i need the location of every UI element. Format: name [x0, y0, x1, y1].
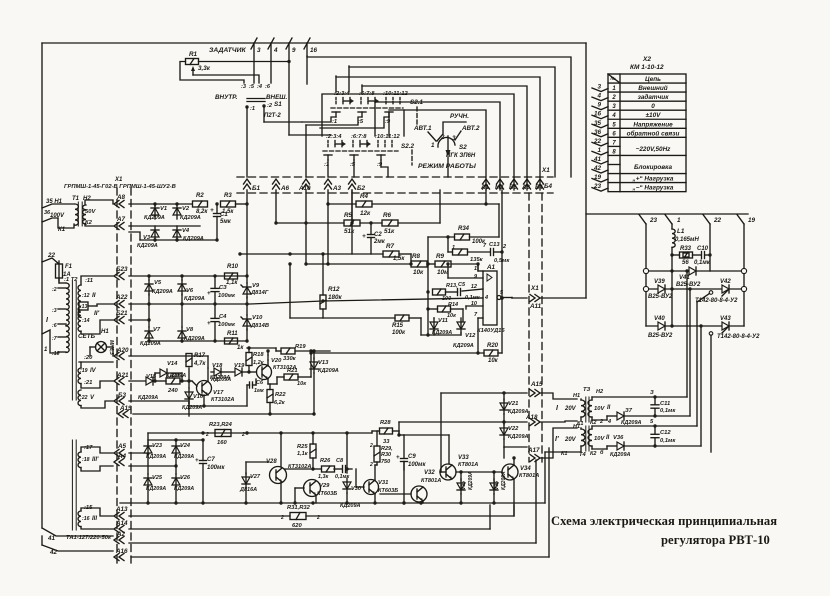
svg-text:V7: V7: [153, 327, 161, 333]
svg-text::6: :6: [52, 323, 57, 329]
svg-text:III′: III′: [92, 457, 99, 463]
svg-text:R15: R15: [392, 323, 404, 329]
svg-text:2: 2: [369, 462, 373, 468]
capacitor C6: [250, 380, 264, 394]
wire v23 top rail: [148, 438, 205, 447]
node V1 labels: [144, 206, 167, 221]
svg-text:Б5: Б5: [509, 185, 517, 191]
node X1 pin А6: [273, 179, 290, 192]
svg-text:V36: V36: [494, 481, 500, 490]
svg-text:20V: 20V: [564, 437, 577, 443]
svg-text:IV: IV: [90, 368, 97, 374]
svg-text:„−“ Нагрузка: „−“ Нагрузка: [632, 185, 674, 192]
svg-text:С9: С9: [408, 454, 416, 460]
node X1 pin Б21: [114, 310, 128, 324]
node X1 pin А18: [525, 414, 540, 426]
resistor R16: [166, 373, 181, 394]
svg-text:10V: 10V: [594, 436, 605, 442]
wire R19 wires: [247, 348, 311, 351]
svg-text:2: 2: [241, 432, 245, 438]
svg-text:750: 750: [381, 459, 390, 465]
svg-text:А19: А19: [119, 405, 132, 412]
svg-text:3: 3: [597, 84, 601, 91]
node terminal 23: [639, 215, 658, 225]
svg-text:V26: V26: [180, 475, 191, 481]
svg-text:V36: V36: [613, 435, 624, 441]
wire X2 external pin leads: [592, 84, 608, 192]
transformer T3 core: [586, 397, 589, 422]
svg-text:V33: V33: [458, 455, 469, 461]
wire C9 row: [399, 393, 446, 472]
svg-text:Н2: Н2: [596, 389, 603, 395]
svg-text:R26: R26: [320, 458, 331, 464]
diode V35: [457, 471, 474, 494]
svg-text:II: II: [607, 405, 611, 411]
svg-text::3: :3: [52, 308, 57, 314]
fuse F1: [56, 261, 73, 281]
node X1 pin А11: [529, 295, 542, 311]
svg-text:X1: X1: [114, 177, 123, 183]
wire rail 433: [148, 431, 372, 440]
svg-text:V15: V15: [146, 374, 157, 380]
node T2 I label: [46, 317, 49, 324]
svg-text:1: 1: [44, 347, 48, 353]
svg-text:А9: А9: [521, 185, 530, 191]
svg-text:V5: V5: [154, 280, 162, 286]
svg-text:КД209А: КД209А: [183, 236, 204, 242]
diode V22: [500, 424, 529, 440]
capacitor C3: [207, 276, 236, 304]
svg-text:5: 5: [650, 419, 654, 425]
wire V35 wires: [460, 472, 462, 503]
wire R29 wires: [375, 431, 377, 465]
wire right border to thyristor block: [586, 213, 748, 215]
capacitor C5: [458, 282, 481, 301]
svg-text:КД209А: КД209А: [146, 486, 166, 492]
svg-text:V19: V19: [234, 363, 245, 369]
transformer T2 primary lower: [66, 326, 69, 352]
svg-text:КД209А: КД209А: [174, 486, 194, 492]
wire A1 pin10: [466, 306, 483, 309]
wire snubber row: [643, 268, 746, 273]
svg-text:V12: V12: [465, 333, 476, 339]
resistor R12v: [320, 286, 343, 309]
svg-text:0,1мк: 0,1мк: [694, 260, 711, 266]
svg-text:33: 33: [383, 439, 390, 445]
node V43 labels: [717, 316, 760, 340]
wire C9 bottom: [402, 462, 405, 505]
node КД209А V18V19 label: [211, 377, 231, 383]
svg-text:V23: V23: [152, 443, 163, 449]
wire А18 row: [399, 420, 527, 423]
svg-text:51к: 51к: [344, 228, 355, 235]
wire frame left drop 5: [321, 95, 323, 136]
node T3 labels: [556, 387, 611, 427]
svg-text:1: 1: [474, 266, 477, 272]
node pin 4 top border: [268, 38, 278, 54]
wire А16 row: [131, 448, 549, 557]
svg-text:10к: 10к: [413, 269, 424, 276]
svg-text:КД209А: КД209А: [184, 296, 205, 302]
svg-text::2: :2: [52, 287, 57, 293]
node ВНУТР label: [215, 94, 238, 101]
svg-text:1: 1: [612, 86, 616, 92]
wire T1 pri bottom: [58, 218, 74, 228]
node V41 labels: [676, 275, 701, 288]
node title line1: [551, 514, 777, 528]
node X1 top dashed bus upper: [237, 176, 553, 178]
inductor L1: [672, 228, 699, 247]
node X1 pin Б3: [114, 392, 126, 405]
wire V16 wires: [187, 368, 190, 416]
svg-text:7: 7: [612, 140, 616, 146]
svg-text:1,2к: 1,2к: [253, 360, 265, 366]
resistor R3: [221, 193, 236, 215]
svg-text::2: :2: [267, 103, 273, 109]
wire IV to А20: [79, 362, 113, 368]
transformer T4 primary: [566, 428, 585, 452]
diode V14: [160, 361, 186, 379]
svg-text:А4: А4: [117, 453, 127, 460]
wire R21 wires: [268, 349, 313, 384]
wire v5 v6 legs: [149, 276, 182, 304]
svg-text:РУЧН.: РУЧН.: [450, 113, 469, 120]
svg-text:+: +: [207, 321, 211, 327]
wire frame line 1: [307, 57, 571, 177]
wire T3 sec top rail: [592, 395, 687, 400]
wire А2 row: [129, 460, 536, 543]
node X1 pin А14: [114, 520, 128, 533]
svg-text:2мк: 2мк: [373, 239, 386, 245]
node ПГК ЗП6Н label: [446, 153, 476, 159]
wire frame line 6: [375, 102, 500, 190]
resistor R13: [433, 283, 459, 302]
transistor V20: [257, 358, 297, 380]
svg-text:1,3к: 1,3к: [318, 474, 328, 480]
wire v5 top rail: [129, 274, 249, 277]
svg-text:S2: S2: [459, 144, 467, 151]
wire R34 loop: [428, 235, 499, 252]
wire V33 wires: [404, 435, 449, 472]
svg-text:АВТ.2: АВТ.2: [461, 125, 480, 132]
resistor R22: [267, 390, 286, 407]
diode V4: [173, 226, 204, 242]
transistor V34: [502, 464, 539, 480]
node V40 labels: [648, 316, 673, 339]
svg-text:V9: V9: [252, 283, 260, 289]
wire pin4 drop: [270, 43, 272, 83]
svg-text::10:11:12: :10:11:12: [375, 134, 400, 140]
svg-text:+: +: [207, 291, 211, 297]
svg-text:Схема электрическая принципиал: Схема электрическая принципиальная: [551, 514, 777, 528]
wire A1 in9: [446, 262, 483, 278]
svg-text:4: 4: [484, 295, 488, 301]
node X1 label top right: [541, 167, 550, 174]
svg-text:ТЗ: ТЗ: [583, 387, 591, 393]
wire S1 pole1 down to bus: [246, 107, 248, 177]
wire R12 vertical: [322, 254, 324, 318]
wire R15 wires: [290, 264, 421, 335]
svg-text:А2: А2: [116, 531, 126, 538]
svg-text:R23,R24: R23,R24: [209, 422, 233, 428]
resistor R25: [297, 444, 316, 458]
wire T2 bottom tap: [42, 330, 58, 353]
wire R1 wiper out: [193, 75, 259, 83]
svg-text:10к: 10к: [447, 313, 457, 319]
wire А17 row: [504, 446, 527, 448]
wire T4 sec bottom: [592, 446, 616, 449]
svg-text:А1: А1: [480, 185, 489, 191]
svg-text:10к: 10к: [488, 358, 499, 364]
wire А13 row: [129, 515, 290, 517]
node :11 label: [85, 278, 93, 284]
wire III to А13: [81, 508, 113, 516]
svg-text:R18: R18: [253, 352, 264, 358]
capacitor C1: [210, 202, 232, 240]
svg-text:1: 1: [677, 217, 681, 224]
wire R1 pot loop: [180, 62, 244, 84]
transformer T3 primary: [581, 399, 585, 421]
transistor V29: [304, 480, 338, 498]
svg-text:V1: V1: [160, 206, 167, 212]
node Б4 label right: [544, 183, 552, 190]
diode V3: [137, 226, 159, 249]
svg-text::14: :14: [82, 318, 90, 324]
svg-text:Б2: Б2: [357, 185, 365, 192]
capacitor C13: [483, 242, 510, 264]
wire frame line 3: [336, 77, 540, 190]
node X1 pin А4: [114, 453, 127, 466]
wire III' to А5: [81, 447, 113, 453]
wire А1 drop: [485, 190, 487, 204]
svg-text:23: 23: [649, 217, 658, 224]
svg-text:№: №: [610, 76, 616, 81]
node T4 labels: [555, 424, 604, 458]
svg-text:19: 19: [748, 217, 756, 224]
node :20 label: [84, 355, 93, 361]
transformer T4 core: [586, 426, 589, 451]
wire А19 long row: [133, 413, 314, 415]
resistor R15: [392, 315, 409, 336]
wire R7 row: [352, 190, 411, 254]
svg-text:Напряжение: Напряжение: [633, 121, 673, 128]
wire S2.2 bottoms to bus: [328, 160, 388, 177]
svg-text:СЕТЬ: СЕТЬ: [78, 333, 96, 340]
svg-text::1: :1: [250, 106, 255, 112]
transformer T2 secondary V: [78, 390, 81, 406]
resistor R33: [680, 246, 693, 266]
svg-text:обратной связи: обратной связи: [627, 129, 680, 137]
node X1 pin Б23: [114, 266, 128, 280]
node X1 pin А7: [114, 216, 126, 230]
wire A7 to bridge: [129, 225, 200, 227]
svg-text:С5: С5: [458, 282, 466, 288]
svg-text:КД209А: КД209А: [610, 452, 631, 458]
svg-text:С13: С13: [489, 242, 500, 248]
svg-text:С10: С10: [697, 246, 709, 252]
svg-text:С1: С1: [220, 212, 228, 218]
svg-text:V40: V40: [654, 316, 665, 322]
diode V18: [212, 363, 223, 376]
svg-text:II: II: [92, 292, 96, 299]
svg-text:1мк: 1мк: [254, 388, 264, 394]
svg-text::2:3:4: :2:3:4: [326, 134, 342, 140]
wire lamp leads: [90, 347, 113, 356]
diode V26: [172, 474, 194, 492]
svg-text:АВТ.1: АВТ.1: [413, 125, 432, 132]
transistor V28: [266, 459, 311, 484]
node X1 out label: [530, 285, 539, 292]
svg-text:R9: R9: [436, 253, 445, 260]
svg-text:51к: 51к: [384, 228, 395, 235]
svg-text:V24: V24: [180, 443, 191, 449]
svg-text:V31: V31: [378, 480, 388, 486]
svg-text:Блокировка: Блокировка: [634, 164, 673, 171]
node X1 pin А19: [118, 405, 132, 418]
svg-text:КД209А: КД209А: [138, 395, 158, 401]
wire А4 row: [129, 455, 178, 474]
capacitor C12: [651, 426, 676, 446]
svg-text:А10: А10: [298, 185, 311, 192]
svg-text:V35: V35: [461, 481, 467, 490]
node :13 box: [79, 302, 88, 310]
wire А20 row: [129, 355, 189, 357]
svg-text:V17: V17: [213, 390, 224, 396]
node К140УД16 label: [477, 328, 505, 334]
wire A1 pin7: [478, 318, 483, 353]
svg-text:36: 36: [44, 210, 51, 216]
svg-text:+: +: [396, 455, 400, 461]
svg-text:10м: 10м: [437, 269, 449, 276]
wire v10 legs: [246, 304, 248, 341]
svg-text:V8: V8: [186, 327, 194, 333]
resistor R11: [225, 331, 245, 351]
wire V38 out: [624, 444, 701, 447]
wire bridge bottom rail: [646, 325, 744, 327]
transformer T3 secondary: [588, 400, 611, 417]
svg-text:2: 2: [369, 443, 373, 449]
wire V33V34 link row: [456, 470, 502, 473]
svg-text:ГРПМШ-1-45-Г02-В ГРПМШ-1-45-Ш: ГРПМШ-1-45-Г02-В ГРПМШ-1-45-ШУ2-В: [64, 184, 176, 190]
svg-text:2: 2: [611, 95, 616, 101]
resistor R26: [320, 458, 335, 472]
node X1 pin Б4: [535, 179, 544, 191]
node pin 16 top border: [304, 38, 318, 54]
svg-text:3: 3: [257, 47, 261, 54]
svg-text:задатчик: задатчик: [638, 93, 670, 101]
svg-text::10: :10: [52, 351, 60, 357]
svg-text:V2: V2: [182, 206, 190, 212]
node :21 label: [84, 380, 92, 386]
svg-text:V27: V27: [250, 474, 261, 480]
wire А11 to border: [540, 297, 586, 299]
svg-text:С12: С12: [660, 430, 671, 436]
resistor R23 R24: [205, 422, 245, 446]
node X1 pin Б1: [244, 179, 261, 192]
wire frame line 4: [362, 86, 527, 190]
wire v7 bottom rail: [147, 339, 248, 342]
svg-text:R10: R10: [227, 264, 239, 270]
resistor R31 R32: [280, 505, 320, 529]
svg-text:С11: С11: [660, 401, 670, 407]
svg-text:РЕЖИМ РАБОТЫ: РЕЖИМ РАБОТЫ: [418, 163, 476, 170]
diode V9 zener: [241, 283, 269, 298]
svg-text:А11: А11: [529, 303, 542, 310]
node АВТ.1 label: [413, 125, 436, 141]
node :15 label: [84, 505, 93, 511]
svg-text:С2: С2: [374, 232, 382, 238]
wire Б3 row: [129, 401, 189, 403]
svg-text:V42: V42: [720, 279, 731, 285]
svg-text:0: 0: [651, 103, 655, 110]
svg-text:Б23: Б23: [116, 266, 128, 273]
node S1 contact labels: [241, 84, 271, 90]
node terminal 22: [703, 215, 722, 225]
svg-text:КМ 1-10-12: КМ 1-10-12: [630, 64, 664, 71]
wire R33C10 links: [672, 253, 712, 256]
svg-text:В25-ВУ2: В25-ВУ2: [648, 333, 673, 339]
svg-text:6: 6: [612, 131, 616, 137]
diode V1: [151, 204, 159, 219]
wire V27 wires: [246, 462, 269, 503]
wire C13 drop: [476, 262, 479, 270]
svg-text:4: 4: [273, 47, 278, 54]
resistor R7: [383, 243, 405, 262]
resistor R10: [225, 264, 239, 286]
node X1 pin А1: [480, 179, 490, 191]
node 41 label: [47, 535, 56, 542]
transistor V33: [440, 455, 478, 480]
wire 22 tap: [42, 258, 59, 264]
transformer T2 secondary II: [78, 285, 81, 317]
wire V20 collector: [266, 349, 269, 366]
node II' labels: [82, 310, 100, 324]
resistor R1: [186, 51, 211, 72]
wire 42: [42, 545, 113, 551]
node terminal 19: [737, 215, 756, 225]
diode V25: [144, 474, 166, 492]
wire А21 row: [129, 379, 197, 386]
wire T1 sec to A7: [85, 224, 113, 227]
wire V28 wires: [280, 433, 282, 503]
node V labels: [80, 395, 95, 401]
svg-text::4: :4: [257, 84, 263, 90]
transformer T1 secondary: [83, 205, 97, 226]
svg-text:К140УД16: К140УД16: [477, 328, 505, 334]
svg-text:+: +: [210, 207, 214, 214]
wire III bottom to А14: [81, 527, 113, 529]
svg-text:К2: К2: [590, 420, 596, 426]
svg-text:160: 160: [217, 440, 227, 446]
svg-text:1: 1: [452, 245, 455, 251]
svg-text:А15: А15: [530, 381, 543, 388]
svg-text:С7: С7: [207, 457, 215, 463]
wire bridge bottom rail: [140, 238, 219, 241]
node X1 pin А15: [530, 381, 543, 397]
wire V bottom to Б3: [81, 401, 113, 408]
switch S2: [431, 122, 467, 157]
svg-text:R2: R2: [196, 193, 204, 199]
svg-text:22: 22: [713, 217, 722, 224]
wire v7 v8 legs: [149, 304, 182, 341]
wire Б2 drop below bus: [350, 190, 353, 225]
wire S2.1 exit5 to А10: [305, 125, 307, 177]
svg-text:135к: 135к: [470, 257, 484, 263]
node ТА1 label: [66, 535, 112, 541]
svg-text::9: :9: [385, 119, 391, 125]
svg-text::7: :7: [52, 336, 58, 342]
svg-text:А20: А20: [116, 347, 129, 354]
